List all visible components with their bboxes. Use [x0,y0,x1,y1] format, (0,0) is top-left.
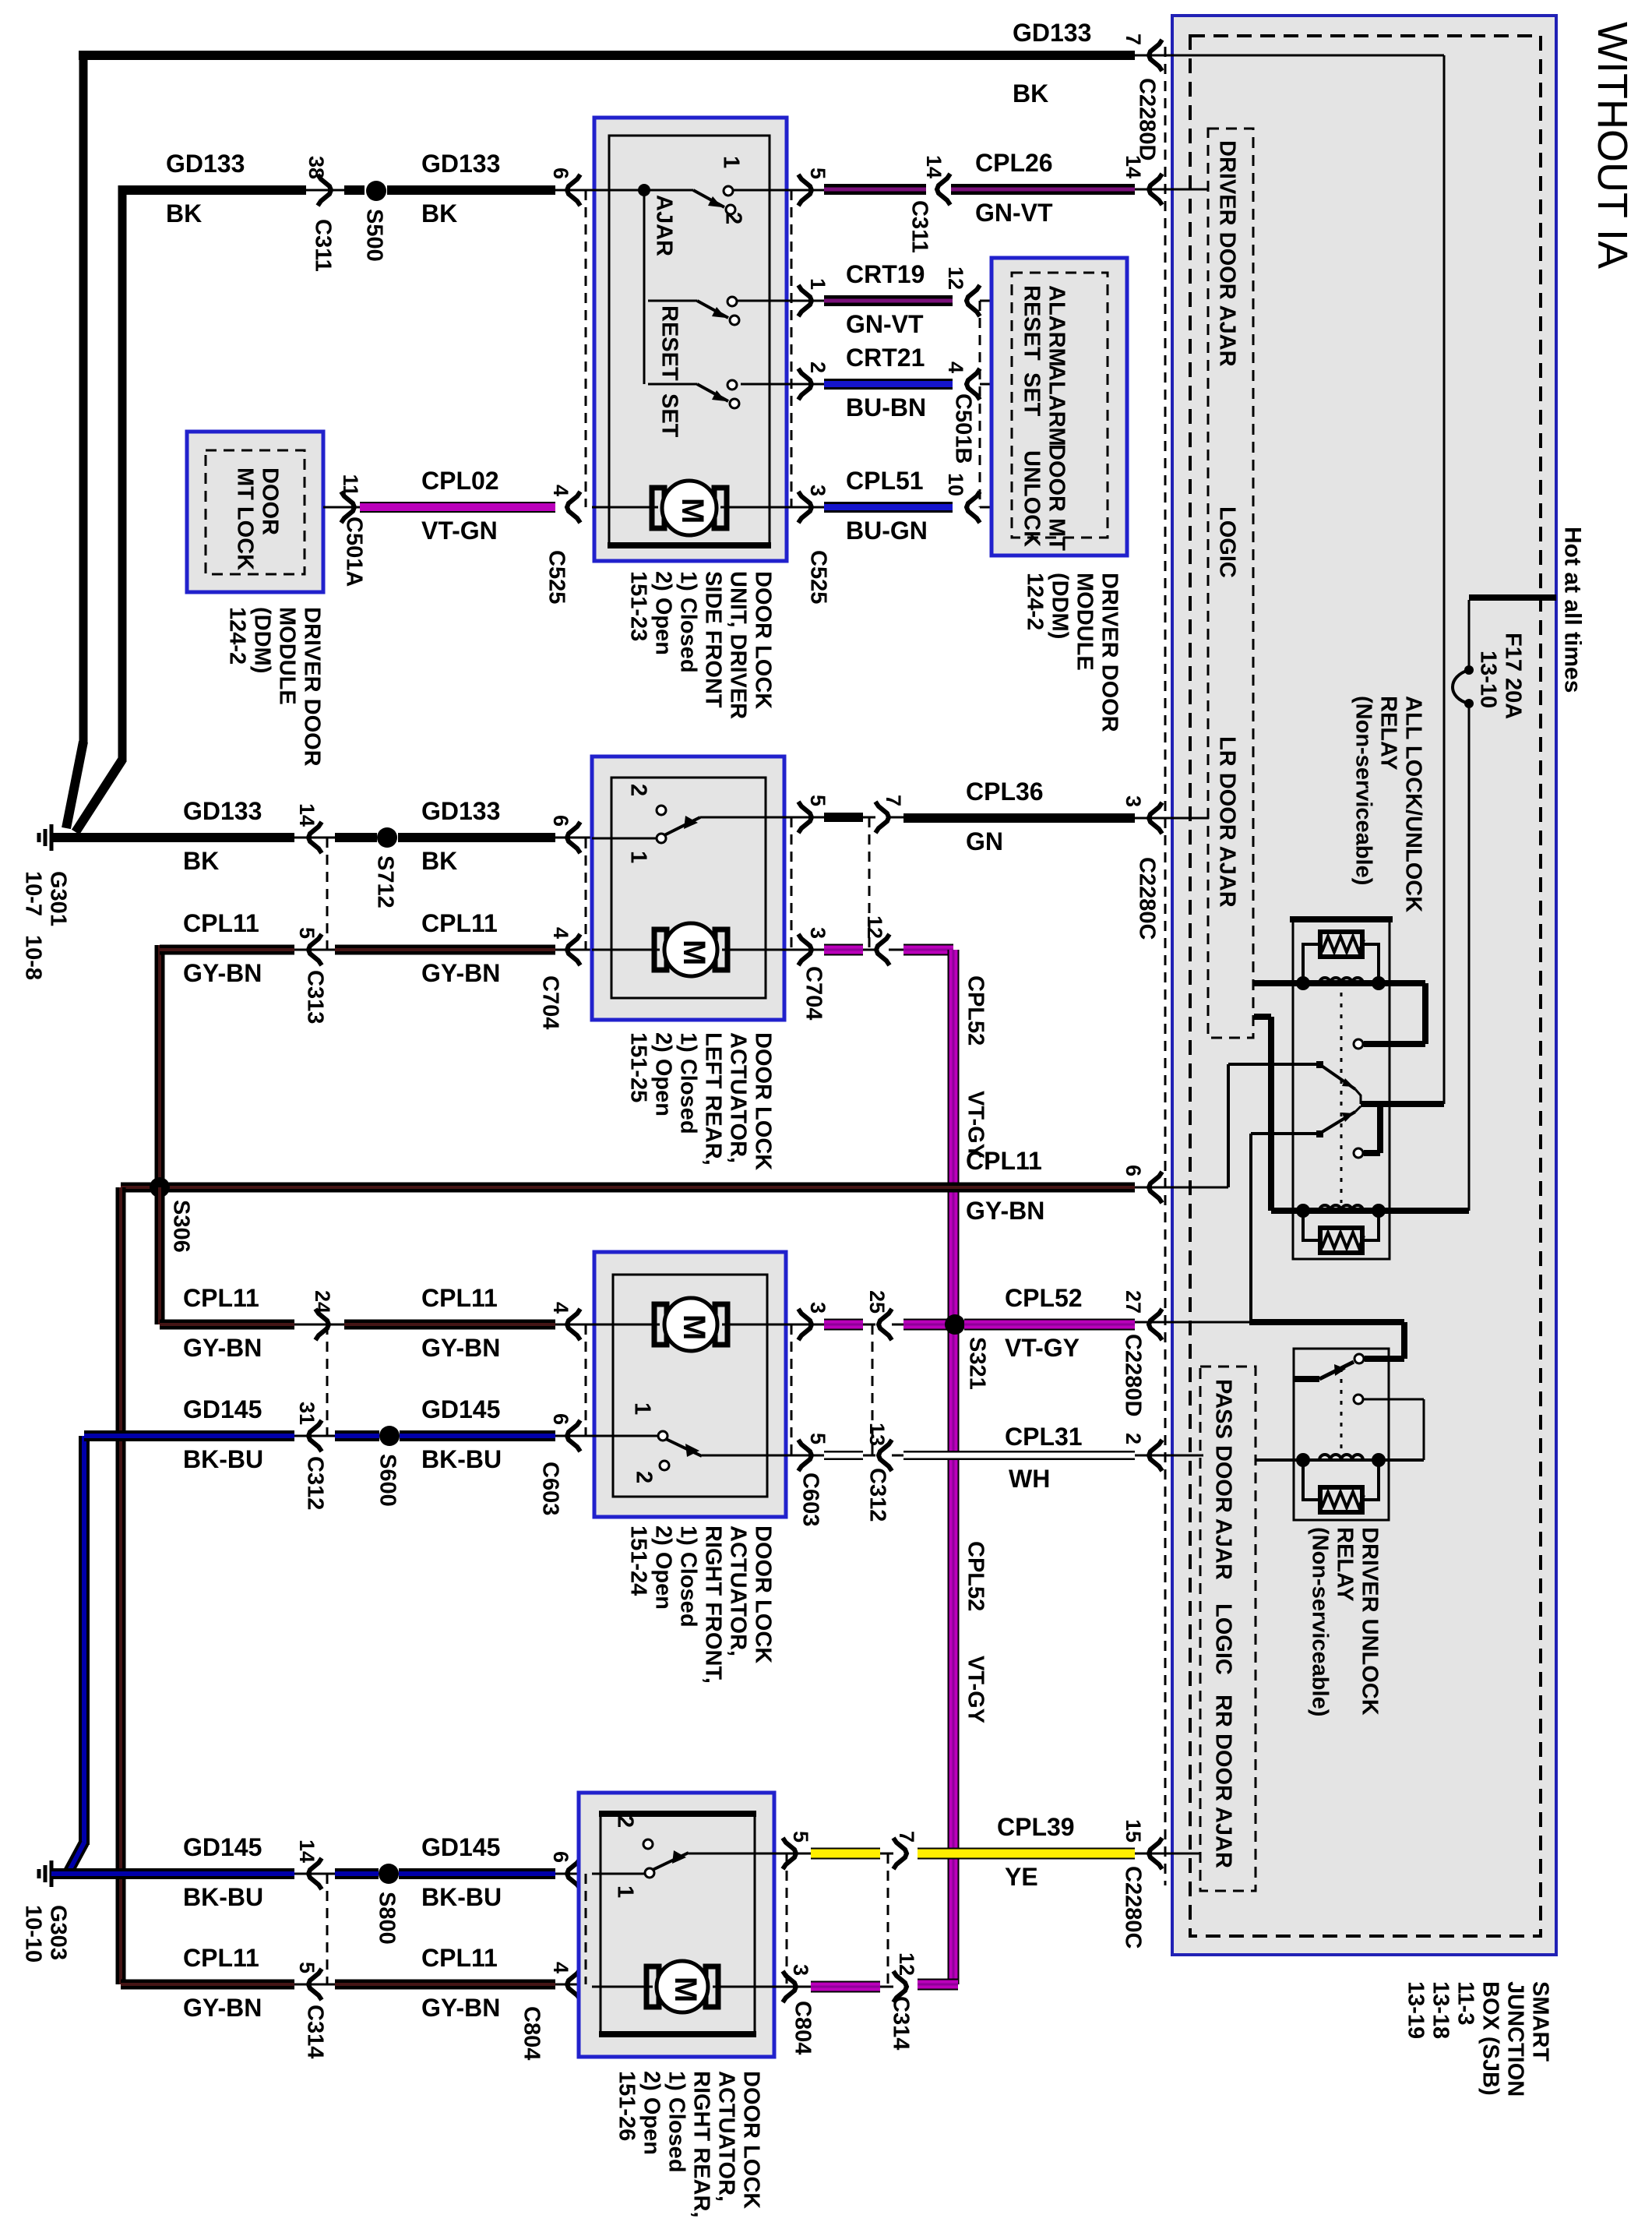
relay K1 lower coil [1271,1208,1469,1214]
svg-text:151-24: 151-24 [626,1525,651,1596]
svg-text:M: M [675,498,710,524]
svg-text:RELAY: RELAY [1333,1527,1358,1602]
reset switch [648,300,697,302]
svg-text:C704: C704 [801,966,826,1020]
pin 3 C2280C [1149,802,1162,834]
svg-text:(DDM): (DDM) [1048,573,1073,639]
connector dashes C312 left [326,1324,329,1436]
connector C312 pin 24 [294,1324,344,1326]
svg-text:2: 2 [1122,1433,1145,1444]
svg-text:13-19: 13-19 [1404,1981,1428,2039]
svg-text:(Non-serviceable): (Non-serviceable) [1308,1527,1333,1716]
svg-text:4: 4 [944,362,967,373]
svg-text:2: 2 [721,212,746,224]
svg-text:10: 10 [944,473,967,496]
svg-text:RESET: RESET [1020,285,1044,361]
svg-text:5: 5 [806,1433,830,1444]
connector C312 pin 31 [294,1435,335,1437]
relay K2 resistor R3 [1320,1487,1362,1512]
svg-text:GD145: GD145 [421,1833,500,1861]
svg-text:UNLOCK: UNLOCK [1020,450,1044,547]
pin 27 C2280D [1149,1309,1162,1340]
wire GD145 row5 left [84,1430,294,1441]
svg-text:YE: YE [1005,1863,1038,1891]
svg-text:BU-GN: BU-GN [846,517,928,545]
dashed logic box pass door ajar [1200,1367,1256,1891]
wire GD145 row6 mid [335,1868,379,1879]
splice S600 [379,1426,400,1446]
pin 5 box4 switch right [783,1838,796,1869]
svg-text:1) Closed: 1) Closed [676,1032,701,1134]
svg-text:1) Closed: 1) Closed [664,2071,689,2173]
svg-text:SET: SET [657,393,682,438]
wire CPL39 YE at box4 [811,1848,880,1860]
wire GD133 row2 right segment [387,185,555,195]
smart junction box SJB outline [1172,16,1556,1955]
svg-text:ALARM: ALARM [1044,365,1069,446]
svg-text:5: 5 [806,795,830,806]
svg-text:C2280D: C2280D [1135,78,1160,160]
svg-text:7: 7 [895,1831,918,1843]
wire CPL52 S321 to SJB [964,1319,1135,1331]
svg-text:12: 12 [944,266,967,290]
svg-text:38: 38 [305,156,328,179]
svg-text:2) Open: 2) Open [651,571,676,655]
svg-text:6: 6 [1122,1165,1145,1176]
wire CPL39 YE to SJB [918,1848,1135,1860]
connector dashes C312 right [872,1324,874,1455]
wire CPL36 GN segment2 [903,813,1135,823]
box3 switch [592,1435,658,1437]
svg-text:2) Open: 2) Open [639,2071,664,2155]
svg-text:M: M [668,1977,703,2002]
svg-text:C311: C311 [311,219,336,272]
svg-text:C2280C: C2280C [1135,857,1160,940]
svg-text:C312: C312 [303,1456,328,1510]
wire CRT21 BU-BN [824,379,953,390]
wire CPL52 elbow to vertical [918,1979,958,1991]
wire GD145 bus from row5 [79,1436,90,1845]
svg-text:1: 1 [806,278,830,290]
svg-text:F17 20A: F17 20A [1501,633,1526,719]
pin 6 door lock unit [555,189,592,192]
connector dashes box3 [585,1324,587,1436]
svg-text:VT-GN: VT-GN [421,517,498,545]
wire CPL31 WH to SJB [903,1451,1135,1460]
connector C311 arrow pin 38 [306,189,344,192]
svg-text:4: 4 [549,927,572,939]
fuse F17 20A [1464,665,1474,675]
svg-text:RIGHT REAR,: RIGHT REAR, [689,2071,714,2218]
svg-text:BK: BK [1013,79,1048,108]
svg-text:5: 5 [789,1831,812,1843]
connector C314 pin 14 [294,1873,335,1875]
svg-text:GD145: GD145 [183,1395,262,1423]
svg-text:PASS DOOR AJAR: PASS DOOR AJAR [1211,1379,1236,1580]
svg-text:CPL02: CPL02 [421,467,499,495]
relay K1 lower contact [1354,1148,1363,1158]
svg-text:7: 7 [882,795,905,806]
wire GD133 row2 left segment [122,185,306,195]
svg-text:M: M [677,940,711,965]
svg-text:CRT19: CRT19 [846,260,925,288]
svg-text:11: 11 [339,474,362,496]
connector dashes box2 C704 [585,838,587,950]
svg-text:DRIVER UNLOCK: DRIVER UNLOCK [1358,1527,1383,1716]
svg-text:2: 2 [613,1815,638,1828]
svg-text:C313: C313 [303,970,328,1024]
svg-text:7: 7 [1122,34,1145,45]
svg-text:13-10: 13-10 [1476,651,1501,708]
svg-text:DOOR LOCK: DOOR LOCK [751,1032,776,1170]
svg-text:BK-BU: BK-BU [183,1883,263,1911]
svg-text:2: 2 [632,1471,657,1483]
svg-text:GD133: GD133 [166,150,245,178]
pin 1 alarm reset output [798,285,812,316]
relay K1 upper coil [1254,980,1425,986]
connector C314 pin 5 [294,1984,335,1986]
svg-text:BK: BK [183,847,219,875]
svg-text:S600: S600 [375,1454,400,1507]
relay K1 common output to ground wire [1355,1089,1361,1104]
svg-text:S321: S321 [965,1337,990,1390]
svg-text:C603: C603 [798,1472,823,1526]
wire CPL11 row left elbow [155,945,165,1187]
wire CPL02 VT-GN [360,502,555,513]
svg-text:M: M [677,1314,711,1340]
svg-text:6: 6 [549,1413,572,1425]
svg-text:DRIVER DOOR: DRIVER DOOR [1097,573,1122,732]
splice S800 [379,1864,399,1884]
door mt lock box [187,432,323,592]
svg-text:C501A: C501A [342,517,367,587]
svg-text:C804: C804 [791,2001,815,2054]
svg-text:VT-GY: VT-GY [1005,1334,1080,1362]
pin 2 alarm set output [798,369,812,400]
wire GD145 row6 right [399,1868,555,1879]
svg-text:SMART: SMART [1528,1981,1553,2061]
box4 switch [592,1873,645,1875]
svg-text:RELAY: RELAY [1376,696,1401,771]
pin 4 box4 [555,1984,592,1986]
wire GD133 row3 right [398,833,555,842]
svg-text:3: 3 [806,485,830,496]
relay K1 blade 1 lock [1228,1063,1319,1066]
svg-text:DRIVER DOOR: DRIVER DOOR [300,607,325,767]
svg-text:BK: BK [421,847,457,875]
svg-text:CPL52: CPL52 [963,1541,988,1611]
svg-text:6: 6 [549,1851,572,1863]
relay K1 upper contact [1354,1039,1363,1049]
svg-text:VT-GY: VT-GY [963,1656,988,1723]
pin 4 box3 [555,1324,592,1326]
svg-text:CPL11: CPL11 [421,1284,498,1312]
svg-text:6: 6 [549,815,572,827]
svg-text:DRIVER DOOR AJAR: DRIVER DOOR AJAR [1215,140,1240,367]
connector dashes box1 right C525 [791,190,793,507]
connector C312 right pin 25 [863,1324,875,1326]
connector C313 right pin 7 [875,802,889,833]
pin 5 ajar output [798,175,812,206]
svg-text:C804: C804 [520,2006,544,2060]
svg-text:ACTUATOR,: ACTUATOR, [726,1032,751,1163]
relay K2 DRIVER UNLOCK RELAY outline [1294,1349,1389,1520]
svg-text:5: 5 [295,1962,319,1973]
wire GD133 top row [79,51,1135,60]
svg-text:1: 1 [613,1885,638,1898]
svg-text:GY-BN: GY-BN [421,959,500,987]
svg-text:151-26: 151-26 [615,2071,639,2141]
svg-text:CPL26: CPL26 [975,149,1053,177]
svg-text:3: 3 [1122,795,1145,807]
svg-text:C312: C312 [865,1468,890,1522]
svg-text:3: 3 [789,1964,812,1976]
relay K1 resistor R1 [1320,932,1362,957]
SJB inner dashed border [1190,36,1541,1936]
svg-text:2: 2 [626,784,651,796]
svg-text:RESET: RESET [657,305,682,381]
svg-text:C314: C314 [889,1996,914,2050]
svg-text:ALARM: ALARM [1044,285,1069,367]
svg-text:C603: C603 [538,1462,563,1515]
svg-text:CPL39: CPL39 [997,1813,1075,1841]
wire CPL31 WH at box3 [824,1451,863,1460]
wire CPL11 row7 right [335,1980,555,1990]
svg-text:14: 14 [1122,155,1145,178]
svg-text:DOOR LOCK: DOOR LOCK [751,571,776,709]
pin 15 C2280C [1149,1838,1162,1869]
svg-text:G303: G303 [46,1905,71,1960]
svg-text:WH: WH [1009,1465,1050,1493]
svg-text:CPL51: CPL51 [846,467,924,495]
svg-text:CPL31: CPL31 [1005,1423,1083,1451]
wire CPL11 row7 left [121,1980,294,1990]
svg-text:LR DOOR AJAR: LR DOOR AJAR [1215,736,1240,908]
svg-text:CPL11: CPL11 [421,909,498,937]
set switch [648,383,697,386]
svg-text:31: 31 [295,1402,319,1425]
connector C314 right pin 7 [880,1853,893,1855]
svg-text:S306: S306 [169,1200,194,1253]
svg-text:C525: C525 [544,550,569,604]
pin 2 C2280D [1149,1440,1162,1471]
svg-text:1) Closed: 1) Closed [676,571,701,673]
svg-text:ACTUATOR,: ACTUATOR, [726,1525,751,1656]
pin 11 C501A [323,506,360,509]
svg-text:DOOR MT: DOOR MT [1044,444,1069,551]
svg-text:3: 3 [806,1302,830,1314]
relay K2 upper contact [1354,1354,1364,1363]
wire CPL26 GN-VT segment 1 [824,184,926,195]
splice S321 [945,1314,965,1335]
svg-text:1: 1 [630,1402,655,1415]
svg-text:1: 1 [626,851,651,863]
svg-text:5: 5 [295,927,319,939]
relay K1 dashed link [1340,993,1343,1203]
svg-text:SIDE FRONT: SIDE FRONT [701,571,726,708]
svg-text:6: 6 [549,168,572,179]
pin 6 box3 [555,1435,592,1437]
wire CPL11 row4 left [160,1320,294,1330]
svg-text:4: 4 [549,1962,572,1973]
pin 6 box2 [555,837,592,839]
pin 14 C2280D [1149,174,1162,205]
pins box2 right [798,802,812,833]
relay K2 coil [1256,1458,1424,1462]
svg-text:GY-BN: GY-BN [183,1994,262,2022]
svg-text:C525: C525 [806,550,831,604]
wire fuse output to relay coil [1468,704,1471,1211]
svg-text:3: 3 [806,927,830,939]
svg-text:ALL LOCK/UNLOCK: ALL LOCK/UNLOCK [1401,696,1426,912]
connector dashes C314 right [887,1853,889,1984]
connector dashes C501B [979,301,981,507]
box4 motor M4 [592,1986,653,1988]
svg-text:ACTUATOR,: ACTUATOR, [714,2071,739,2202]
svg-text:24: 24 [311,1290,334,1314]
connector dashes C313 left [326,838,329,950]
svg-text:25: 25 [865,1290,889,1314]
ground G301 [50,824,54,851]
svg-text:S500: S500 [362,209,387,262]
svg-text:5: 5 [806,168,830,179]
pin 6 box4 [555,1873,592,1875]
svg-text:151-25: 151-25 [626,1032,651,1102]
svg-text:GY-BN: GY-BN [966,1197,1044,1225]
fuse F17 feed wire hot at all times [1469,594,1556,601]
connector C311 right pin 14 [937,174,950,205]
relay K2 blade [1294,1376,1319,1382]
svg-text:CPL52: CPL52 [1005,1284,1083,1312]
svg-text:14: 14 [922,155,946,178]
svg-text:C311: C311 [907,200,932,253]
svg-text:2: 2 [806,362,830,373]
svg-text:2) Open: 2) Open [651,1525,676,1610]
svg-text:11-3: 11-3 [1453,1981,1478,2025]
pin 3 box4 motor right [783,1971,796,2002]
wire CPL52 at box3 [824,1319,863,1331]
box2 motor M2 [592,949,660,951]
connector C313 pin 14 [294,837,335,839]
svg-text:12: 12 [863,915,886,939]
door lock actuator right rear box [579,1793,774,2057]
svg-text:RR DOOR AJAR: RR DOOR AJAR [1211,1695,1236,1868]
svg-text:CRT21: CRT21 [846,344,925,372]
pin 4 box2 [555,949,592,951]
svg-text:2) Open: 2) Open [651,1032,676,1116]
connector face dashed line C2280 [1164,47,1167,1885]
svg-text:14: 14 [295,1839,319,1863]
svg-text:10-10: 10-10 [21,1905,46,1963]
svg-text:S800: S800 [375,1892,400,1945]
svg-text:GN-VT: GN-VT [846,310,924,338]
svg-text:27: 27 [1122,1290,1145,1314]
svg-text:(Non-serviceable): (Non-serviceable) [1351,696,1376,885]
svg-text:GD145: GD145 [421,1395,500,1423]
svg-text:GY-BN: GY-BN [183,959,262,987]
pin 3 motor right [798,492,812,523]
svg-text:C2280C: C2280C [1121,1866,1146,1949]
svg-text:BU-BN: BU-BN [846,393,926,421]
wire CPL11 riser to relay K1 [1227,1064,1230,1187]
svg-text:GY-BN: GY-BN [421,1994,500,2022]
relay K2 lower contact [1354,1395,1363,1404]
pin 10 C501B [967,492,980,523]
wire GD133 inside SJB to relay common [1165,55,1444,57]
wire GD133 row3 left [74,833,294,842]
svg-text:10-7: 10-7 [21,871,46,916]
splice S500 [366,181,386,201]
svg-text:CPL11: CPL11 [183,1284,259,1312]
wire CPL52 link at box2 motor [824,944,863,956]
svg-text:13-18: 13-18 [1428,1981,1453,2039]
connector C313 pin 5 [294,949,335,951]
relay K1 blade 2 unlock [1251,1132,1319,1135]
wire CPL26 GN-VT segment 2 [951,184,1135,195]
svg-text:GY-BN: GY-BN [421,1334,500,1362]
wire GD145 row5 mid [335,1430,379,1441]
svg-text:BK: BK [166,199,202,227]
wire GD145 row6 left [66,1868,294,1879]
door lock motor M1 [592,506,658,509]
connector dashes C313 right [868,817,871,950]
svg-text:10-8: 10-8 [21,935,46,980]
wire CPL52 to splice S321 [903,1319,953,1331]
door lock actuator right front box [594,1252,786,1517]
svg-text:LEFT REAR,: LEFT REAR, [701,1032,726,1166]
svg-text:BK-BU: BK-BU [183,1445,263,1473]
wire GD133 left bus from row1 [79,51,88,744]
wire CPL52 riser to relay K1 blade2 [1249,1134,1252,1322]
svg-text:C704: C704 [538,975,563,1029]
svg-text:C501B: C501B [951,393,976,464]
pin 4 C501B [967,369,980,400]
svg-text:DOOR: DOOR [258,467,283,535]
connector dashes box4 [585,1874,587,1984]
svg-text:1: 1 [719,156,744,168]
svg-text:DOOR LOCK: DOOR LOCK [739,2071,764,2209]
pin 7 C2280D [1135,55,1165,57]
svg-text:GD133: GD133 [183,797,262,825]
ajar switch common bus [592,189,644,192]
connector C313 right pin 12 [876,934,889,965]
svg-text:CPL52: CPL52 [963,975,988,1046]
svg-text:13: 13 [865,1423,889,1446]
connector dashes box1 left C525 [585,190,587,507]
svg-text:GN: GN [966,827,1003,855]
svg-text:BK-BU: BK-BU [421,1445,502,1473]
wire CPL11 bus left elbow down [121,1183,170,1193]
connector C314 right pin 12 [880,1986,893,1988]
svg-text:CPL11: CPL11 [183,909,259,937]
door lock unit driver side front box [594,118,787,561]
wire CPL11 S306 down to row4 [155,1187,165,1324]
svg-text:GY-BN: GY-BN [183,1334,262,1362]
dashed logic box driver door ajar [1208,129,1253,1038]
connector C312 right pin 13 [863,1455,875,1457]
svg-text:GD133: GD133 [1013,19,1091,47]
svg-text:12: 12 [895,1952,918,1976]
svg-text:GD133: GD133 [421,150,500,178]
alarm module box DDM [992,258,1127,555]
svg-text:151-23: 151-23 [626,571,651,641]
svg-text:GN-VT: GN-VT [975,199,1053,227]
svg-text:BOX (SJB): BOX (SJB) [1478,1981,1503,2096]
svg-text:CPL11: CPL11 [183,1944,259,1972]
box3 motor M3 [592,1324,660,1326]
svg-text:WITHOUT IA: WITHOUT IA [1589,22,1636,269]
svg-text:UNIT, DRIVER: UNIT, DRIVER [726,571,751,719]
